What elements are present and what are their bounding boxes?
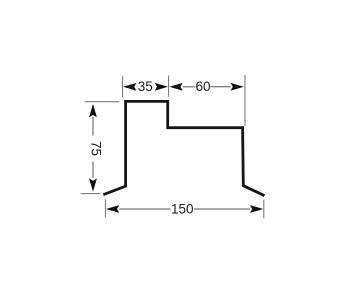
dim 60 arrow right xyxy=(231,83,244,91)
dim 150 arrow left xyxy=(106,205,119,213)
dim 60 arrow left xyxy=(169,83,182,91)
dim 150 line left segment xyxy=(119,208,170,210)
dim 75 extension line top xyxy=(85,101,119,103)
svg-text:60: 60 xyxy=(195,79,210,94)
dim 35 extension line left xyxy=(122,76,124,97)
dim 150 extension line left xyxy=(104,199,106,217)
dim 75 arrow down xyxy=(89,178,97,191)
dim 35 arrow left xyxy=(123,83,136,91)
dim 150 extension line right xyxy=(263,200,265,219)
dim 150 arrow right xyxy=(250,205,263,213)
dim 60 line right segment xyxy=(211,86,231,88)
dim 75 extension line bottom xyxy=(81,193,101,195)
dim 75 arrow up xyxy=(89,104,97,117)
svg-text:150: 150 xyxy=(171,202,194,217)
dim 60 line left segment xyxy=(183,86,196,88)
dim 35 arrow right xyxy=(155,83,168,91)
dim 35/60 shared extension line xyxy=(168,76,170,97)
svg-text:35: 35 xyxy=(138,79,153,94)
profile outline of flashing xyxy=(103,101,264,195)
dim 75 line upper segment xyxy=(92,117,94,136)
dim 75 line lower segment xyxy=(92,162,94,178)
dim 60 extension line right xyxy=(244,75,246,126)
svg-text:75: 75 xyxy=(89,141,104,156)
dim 150 line right segment xyxy=(194,208,250,210)
